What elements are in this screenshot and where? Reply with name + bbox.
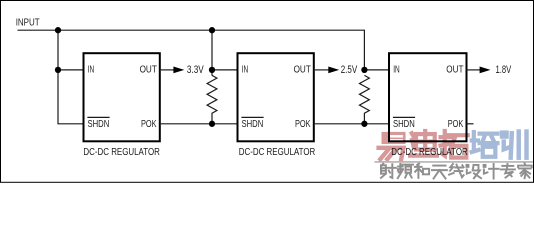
svg-text:OUT: OUT — [140, 65, 157, 76]
schematic frame border — [1, 1, 534, 183]
watermark separator line — [375, 161, 534, 163]
watermark tagline char 频 — [398, 164, 413, 178]
node dot rail-drop1 — [55, 27, 61, 33]
watermark tagline char 计 — [484, 164, 499, 179]
node dot rail-drop2 — [209, 27, 215, 33]
svg-text:IN: IN — [242, 65, 249, 76]
wire OUT3 lead — [467, 69, 481, 71]
svg-text:SHDN: SHDN — [393, 119, 415, 130]
arrow output 2.5V — [328, 67, 339, 74]
svg-text:POK: POK — [448, 119, 464, 130]
node dot 3.3V / IN2 — [209, 67, 215, 73]
wire OUT1 lead — [161, 69, 174, 71]
node dot IN1 tee — [55, 67, 61, 73]
arrow output 3.3V — [173, 67, 184, 74]
DC-DC regulator U2 box — [238, 53, 314, 141]
wire POK2 to SHDN3 — [315, 123, 389, 125]
svg-text:SHDN: SHDN — [88, 119, 110, 130]
node dot R1-POK1 — [209, 121, 215, 127]
wire IN1 lead — [58, 69, 84, 71]
wire INPUT rail — [18, 30, 365, 70]
DC-DC regulator U1 box — [84, 53, 160, 141]
resistor R1 — [207, 75, 217, 123]
watermark tagline char 射 — [381, 164, 396, 178]
DC-DC regulator U3 box — [389, 53, 467, 141]
svg-text:SHDN: SHDN — [242, 119, 264, 130]
watermark char 拓 (red) — [441, 131, 468, 158]
watermark tagline char 专 — [501, 164, 515, 178]
watermark tagline char 线 — [449, 164, 464, 177]
watermark tagline char 家 — [518, 163, 532, 178]
svg-text:POK: POK — [141, 119, 157, 130]
wire OUT2 lead — [315, 69, 329, 71]
wire drop2 from rail to 3.3V node — [211, 30, 213, 75]
watermark char 训 (blue) — [502, 132, 526, 158]
watermark char 易 (red) — [379, 132, 406, 159]
arrow output 1.8V — [480, 67, 491, 74]
svg-text:2.5V: 2.5V — [341, 64, 358, 76]
svg-text:IN: IN — [88, 65, 95, 76]
svg-text:OUT: OUT — [446, 65, 463, 76]
watermark char 培 (blue) — [472, 132, 498, 157]
svg-text:IN: IN — [393, 65, 400, 76]
svg-text:3.3V: 3.3V — [187, 64, 204, 76]
watermark tagline char 和 — [415, 164, 429, 178]
svg-text:POK: POK — [295, 119, 311, 130]
wire IN3 lead — [364, 69, 389, 71]
wire drop to IN1 and SHDN1 — [58, 30, 83, 124]
watermark tagline char 设 — [466, 165, 481, 178]
wire POK3 stub — [467, 123, 474, 125]
watermark group — [375, 131, 534, 179]
watermark char 迪 (red) — [410, 131, 437, 156]
resistor R2 — [360, 75, 370, 123]
wire POK1 to SHDN2 — [161, 123, 238, 125]
svg-text:OUT: OUT — [294, 65, 311, 76]
node dot 2.5V / IN3 — [361, 67, 367, 73]
svg-text:1.8V: 1.8V — [496, 64, 512, 76]
svg-text:INPUT: INPUT — [16, 18, 40, 29]
wire IN2 lead — [212, 69, 238, 71]
watermark tagline char 天 — [432, 166, 447, 179]
svg-text:DC-DC REGULATOR: DC-DC REGULATOR — [83, 147, 160, 158]
svg-text:DC-DC REGULATOR: DC-DC REGULATOR — [239, 147, 316, 158]
node dot R2-POK2 — [361, 121, 367, 127]
